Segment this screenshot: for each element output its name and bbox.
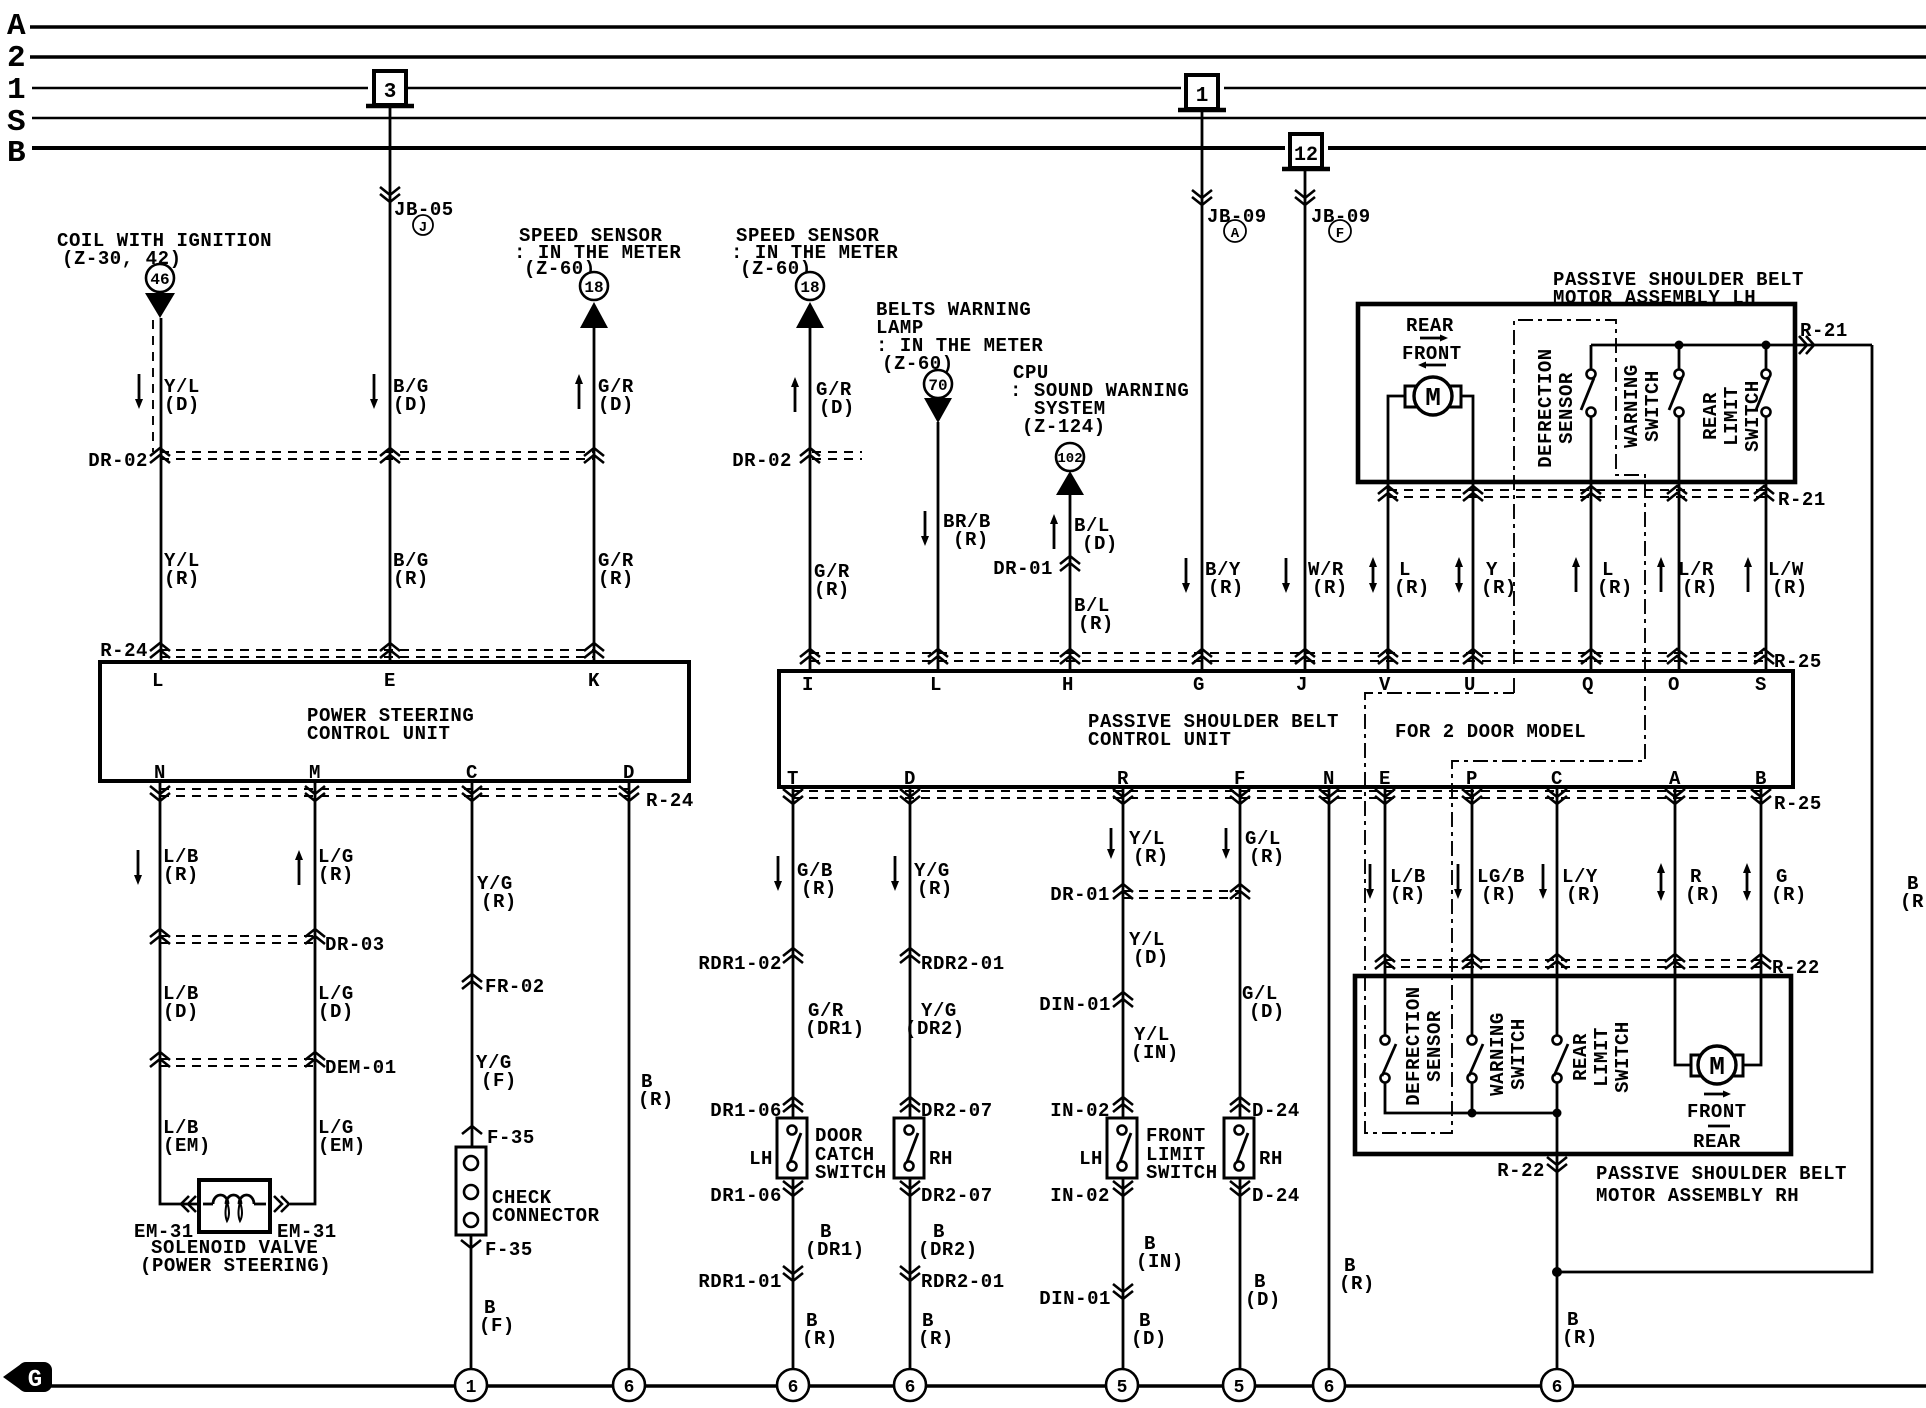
arrow down on wire N — [134, 850, 142, 885]
svg-text:A: A — [1669, 768, 1681, 790]
ground symbol G — [3, 1362, 52, 1394]
junction DR-02 crossing mark on wire E — [380, 448, 400, 463]
wire B PSBCU pin N to ground 6 — [1328, 787, 1331, 1369]
wire warning switch LH bottom to pin O — [1678, 417, 1681, 671]
svg-text:(D): (D) — [164, 394, 200, 416]
wire Y/L coil 46 to PSCU pin L — [160, 318, 163, 662]
switch FRONT LIMIT SWITCH RH — [1224, 1118, 1254, 1178]
switch REAR LIMIT SWITCH LH — [1756, 370, 1771, 417]
ground node 6 at wire D — [613, 1369, 645, 1401]
node A circle of JB-09 — [1224, 220, 1246, 242]
svg-text:(R): (R) — [1339, 1273, 1375, 1295]
svg-text:6: 6 — [905, 1378, 916, 1398]
junction D-24 upper crossing mark — [1230, 1097, 1250, 1112]
wire warning switch LH top to rail — [1678, 349, 1681, 369]
svg-text:B: B — [1755, 768, 1767, 790]
svg-text:P: P — [1466, 768, 1478, 790]
svg-text:RDR1-02: RDR1-02 — [698, 953, 782, 975]
arrow down on wire J — [1282, 558, 1290, 593]
svg-text:SWITCH: SWITCH — [1742, 380, 1764, 452]
junction D-24 lower crossing mark — [1230, 1181, 1250, 1196]
svg-text:WARNING: WARNING — [1621, 364, 1643, 448]
svg-text:H: H — [1062, 674, 1074, 696]
dash-dot 2-door-model boundary loop — [1365, 320, 1645, 1133]
wire defrection sensor LH bottom to pin Q — [1590, 417, 1593, 671]
svg-text:(DR1): (DR1) — [805, 1018, 865, 1040]
ground node 6 at wire D2 — [894, 1369, 926, 1401]
svg-text:DR1-06: DR1-06 — [710, 1185, 782, 1207]
wire from connector 1 down to PSBCU pin G — [1201, 111, 1204, 671]
svg-text:M: M — [309, 762, 321, 784]
junction EM-31 right connector marks — [274, 1196, 289, 1212]
svg-text:E: E — [384, 670, 396, 692]
junction DR-02 crossing mark on wire K — [584, 448, 604, 463]
junction EM-31 left connector marks — [181, 1196, 196, 1212]
wire Y/G PSCU pin C to check connector — [471, 781, 474, 1147]
svg-text:RDR2-01: RDR2-01 — [921, 953, 1005, 975]
svg-text:J: J — [1296, 674, 1308, 696]
junction JB-09 A crossing mark — [1192, 190, 1212, 205]
wire dashed DEM-01 run — [160, 1059, 315, 1066]
svg-text:(R): (R) — [1208, 577, 1244, 599]
arrowhead into wire from coil 46 — [145, 293, 175, 318]
arrow up on wire H — [1050, 514, 1058, 549]
svg-text:L: L — [930, 674, 942, 696]
svg-text:M: M — [1709, 1052, 1725, 1082]
switch REAR LIMIT SWITCH RH — [1553, 1036, 1569, 1083]
connector circle 18 (speed sensor I) — [796, 272, 824, 300]
wire from connector 3 down to PSCU pin E — [389, 107, 392, 662]
svg-text:CONNECTOR: CONNECTOR — [492, 1205, 600, 1227]
wire G/R sensor 18 to PSCU pin K — [593, 328, 596, 662]
junction F-35 upper connector mark — [462, 1126, 482, 1134]
junction DR-03 crossing mark on wire M — [305, 929, 325, 944]
junction DEM-01 crossing mark on wire M — [305, 1052, 325, 1067]
svg-text:1: 1 — [7, 73, 26, 108]
svg-text:RH: RH — [1259, 1148, 1283, 1170]
svg-text:(R): (R) — [638, 1089, 674, 1111]
svg-text:12: 12 — [1294, 144, 1318, 167]
svg-text:70: 70 — [928, 377, 947, 395]
svg-text:D: D — [904, 768, 916, 790]
svg-text:(D): (D) — [393, 394, 429, 416]
svg-text:(R): (R) — [801, 878, 837, 900]
wire stub pin A to RH motor left terminal — [1675, 976, 1691, 1065]
junction RDR2-01 lower crossing mark — [900, 1266, 920, 1281]
svg-text:(R): (R) — [1481, 577, 1517, 599]
arrow down on wire E2 — [1366, 864, 1374, 899]
label REAR with arrow (LH) — [1406, 315, 1454, 342]
svg-text:(DR2): (DR2) — [905, 1018, 965, 1040]
op-box PASSIVE SHOULDER BELT CONTROL UNIT — [779, 671, 1793, 787]
junction R-22 crossing marks — [1375, 954, 1395, 969]
op-box motor assembly LH — [1358, 304, 1795, 482]
wire rear limit LH bottom to pin S — [1765, 417, 1768, 671]
wire G/R sensor 18 to PSBCU pin I — [809, 328, 812, 671]
wire motor LH right terminal to pin U — [1461, 396, 1473, 671]
wire warning RH bottom to junction rail — [1471, 1083, 1474, 1113]
svg-text:6: 6 — [788, 1378, 799, 1398]
connector 12 on bus B — [1282, 134, 1330, 169]
wire motor LH left terminal to pin V — [1388, 396, 1405, 671]
svg-text:DR-01: DR-01 — [1050, 884, 1110, 906]
wire from connector 12 down to PSBCU pin J — [1304, 170, 1307, 671]
wire bus S — [32, 117, 1926, 119]
svg-text:LH: LH — [1079, 1148, 1103, 1170]
svg-text:E: E — [1379, 768, 1391, 790]
svg-text:J: J — [419, 220, 427, 236]
wire stub pin E inside RH box — [1384, 976, 1387, 1035]
op-box POWER STEERING CONTROL UNIT — [100, 662, 689, 781]
svg-text:FRONT: FRONT — [1402, 343, 1462, 365]
wire dashed R-21 run — [1388, 490, 1770, 497]
svg-text:RDR2-01: RDR2-01 — [921, 1271, 1005, 1293]
wire G/L PSBCU pin F to ground 5 — [1239, 787, 1242, 1369]
svg-text:S: S — [7, 105, 26, 140]
svg-text:R-21: R-21 — [1778, 489, 1826, 511]
wire B tall right run from R-21 rail down to RH ground node — [1557, 345, 1872, 1272]
svg-text:46: 46 — [150, 271, 169, 289]
switch DOOR CATCH SWITCH RH — [894, 1118, 924, 1178]
svg-text:(R): (R) — [164, 568, 200, 590]
svg-text:6: 6 — [1552, 1378, 1563, 1398]
svg-text:G: G — [1193, 674, 1205, 696]
svg-text:(R): (R) — [1685, 884, 1721, 906]
svg-text:LIMIT: LIMIT — [1721, 386, 1743, 446]
switch DEFRECTION SENSOR LH — [1581, 370, 1596, 417]
svg-text:(R): (R) — [1394, 577, 1430, 599]
junction DR2-07 lower crossing mark — [900, 1181, 920, 1196]
svg-text:M: M — [1425, 383, 1441, 413]
svg-text:18: 18 — [584, 279, 603, 297]
junction F-35 lower connector mark — [461, 1240, 481, 1248]
svg-text:A: A — [1231, 226, 1240, 242]
svg-text:(D): (D) — [1131, 1328, 1167, 1350]
junction DR1-06 lower crossing mark — [783, 1181, 803, 1196]
junction IN-02 lower crossing mark — [1113, 1181, 1133, 1196]
arrow up on wire O — [1657, 557, 1665, 592]
wire bus A — [30, 25, 1926, 28]
svg-text:(R): (R) — [393, 568, 429, 590]
wire dashed R-25 bottom run — [793, 791, 1765, 798]
svg-text:DEM-01: DEM-01 — [325, 1057, 397, 1079]
svg-text:18: 18 — [800, 279, 819, 297]
junction R-24 bottom crossing marks — [150, 786, 170, 801]
svg-text:(R): (R) — [1772, 577, 1808, 599]
motor M RH — [1691, 1046, 1743, 1084]
svg-text:F-35: F-35 — [485, 1239, 533, 1261]
svg-text:MOTOR ASSEMBLY RH: MOTOR ASSEMBLY RH — [1596, 1185, 1799, 1207]
svg-text:N: N — [154, 762, 166, 784]
wire stub pin C inside RH box — [1556, 976, 1559, 1035]
switch WARNING SWITCH LH — [1669, 370, 1684, 417]
svg-text:(EM): (EM) — [318, 1135, 366, 1157]
svg-text:(D): (D) — [1249, 1001, 1285, 1023]
svg-text:C: C — [1551, 768, 1563, 790]
switch FRONT LIMIT SWITCH LH — [1107, 1118, 1137, 1178]
arrow down on wire D2 — [891, 856, 899, 891]
arrow down on wire E — [370, 374, 378, 409]
svg-text:DR-01: DR-01 — [993, 558, 1053, 580]
junction DIN-01 upper crossing mark — [1113, 992, 1133, 1007]
svg-text:F: F — [1234, 768, 1246, 790]
component check connector — [456, 1147, 486, 1235]
dashed harness route beside coil wire — [152, 320, 154, 452]
svg-text:WARNING: WARNING — [1487, 1012, 1509, 1096]
junction R-24 crossing mark on wire E — [380, 643, 400, 658]
svg-text:(IN): (IN) — [1136, 1251, 1184, 1273]
label REAR with overline (RH) — [1693, 1126, 1741, 1153]
ground node 6 at wire N — [1313, 1369, 1345, 1401]
svg-text:(EM): (EM) — [163, 1135, 211, 1157]
svg-text:5: 5 — [1117, 1378, 1128, 1398]
svg-text:1: 1 — [1196, 85, 1209, 108]
svg-text:5: 5 — [1234, 1378, 1245, 1398]
wire defrection RH bottom to junction rail — [1385, 1083, 1557, 1113]
svg-text:2: 2 — [7, 41, 26, 76]
svg-text:(R): (R) — [318, 864, 354, 886]
svg-text:A: A — [7, 9, 26, 44]
arrow up on wire I — [791, 377, 799, 412]
junction RDR1-02 crossing mark — [783, 948, 803, 963]
svg-text:F-35: F-35 — [487, 1127, 535, 1149]
wire stub pin B to RH motor right terminal — [1743, 976, 1761, 1065]
svg-text:(R): (R) — [598, 568, 634, 590]
svg-text:R-24: R-24 — [646, 790, 694, 812]
svg-text:LIMIT: LIMIT — [1591, 1027, 1613, 1087]
svg-text:CONTROL UNIT: CONTROL UNIT — [1088, 729, 1231, 751]
wire G PSBCU pin B to RH motor — [1743, 787, 1761, 1065]
ground node 6 at RH assembly — [1541, 1369, 1573, 1401]
svg-text:DEFRECTION: DEFRECTION — [1535, 348, 1557, 468]
svg-text:IN-02: IN-02 — [1050, 1185, 1110, 1207]
wire B PSCU pin D to ground 6 — [628, 781, 631, 1369]
svg-text:SWITCH: SWITCH — [1508, 1018, 1530, 1090]
node F circle of JB-09 — [1329, 220, 1351, 242]
svg-text:DR-03: DR-03 — [325, 934, 385, 956]
junction DR-02 crossing mark on wire L — [150, 448, 170, 463]
junction FR-02 crossing mark on wire C — [462, 974, 482, 989]
svg-text:RH: RH — [929, 1148, 953, 1170]
svg-text:(F): (F) — [479, 1315, 515, 1337]
svg-text:6: 6 — [624, 1378, 635, 1398]
svg-text:S: S — [1755, 674, 1767, 696]
svg-text:(R): (R) — [1249, 846, 1285, 868]
connector 3 on bus 1 — [366, 71, 414, 106]
svg-text:D: D — [623, 762, 635, 784]
svg-text:D-24: D-24 — [1252, 1185, 1300, 1207]
arrowhead out of wire to CPU 102 — [1056, 471, 1084, 495]
arrow up on wire K — [575, 374, 583, 409]
connector 1 on bus 1 — [1178, 75, 1226, 110]
svg-text:(DR2): (DR2) — [918, 1239, 978, 1261]
svg-text:K: K — [588, 670, 600, 692]
svg-text:6: 6 — [1324, 1378, 1335, 1398]
svg-text:1: 1 — [466, 1378, 477, 1398]
op-box motor assembly RH — [1355, 976, 1791, 1154]
svg-text:(D): (D) — [819, 397, 855, 419]
wire L/B PSCU pin N to solenoid valve — [160, 781, 199, 1204]
svg-text:102: 102 — [1057, 451, 1082, 467]
wire dashed DR-02 stub — [812, 452, 862, 459]
arrow down on wire G — [1182, 558, 1190, 593]
arrow down on wire P — [1454, 864, 1462, 899]
svg-text:DR-02: DR-02 — [88, 450, 148, 472]
svg-text:(R): (R) — [1481, 884, 1517, 906]
wire dashed DR-01 run — [1123, 891, 1240, 898]
svg-text:SENSOR: SENSOR — [1556, 372, 1578, 444]
junction R-24 crossing mark on wire L — [150, 643, 170, 658]
junction JB-09 F crossing mark — [1295, 190, 1315, 205]
ground node 6 at wire T — [777, 1369, 809, 1401]
svg-text:(D): (D) — [1245, 1289, 1281, 1311]
wire bus 1 — [32, 87, 1926, 89]
svg-text:(R): (R) — [953, 529, 989, 551]
svg-text:I: I — [802, 674, 814, 696]
svg-text:(R): (R) — [1771, 884, 1807, 906]
svg-text:(D): (D) — [1133, 947, 1169, 969]
svg-text:B: B — [7, 136, 26, 171]
arrow down on wire F — [1222, 828, 1230, 859]
svg-text:PASSIVE SHOULDER BELT: PASSIVE SHOULDER BELT — [1596, 1163, 1847, 1185]
svg-text:DR-02: DR-02 — [732, 450, 792, 472]
svg-text:(R): (R) — [1133, 846, 1169, 868]
connector circle 70 (belts warning lamp) — [924, 370, 952, 398]
svg-text:DR2-07: DR2-07 — [921, 1100, 993, 1122]
wire BR/B lamp 70 to PSBCU pin L — [937, 422, 940, 671]
svg-text:R-25: R-25 — [1774, 793, 1822, 815]
svg-text:(Z-124): (Z-124) — [1022, 416, 1106, 438]
svg-text:(R): (R) — [1390, 884, 1426, 906]
svg-text:(R): (R) — [802, 1328, 838, 1350]
svg-text:(R): (R) — [163, 864, 199, 886]
svg-text:DIN-01: DIN-01 — [1039, 994, 1111, 1016]
arrow down on wire T — [774, 856, 782, 891]
junction R-25 bottom crossing marks — [783, 789, 803, 804]
svg-text:(POWER STEERING): (POWER STEERING) — [140, 1255, 331, 1277]
svg-text:(R): (R) — [918, 1328, 954, 1350]
wire rear limit RH bottom through junction dot down to ground 6 — [1556, 1083, 1559, 1369]
arrow up on wire M — [295, 850, 303, 885]
svg-text:(D): (D) — [1082, 533, 1118, 555]
junction DR-02 crossing mark on wire I — [800, 448, 820, 463]
junction IN-02 upper crossing mark — [1113, 1097, 1133, 1112]
svg-text:(R): (R) — [481, 891, 517, 913]
svg-text:R-22: R-22 — [1497, 1160, 1545, 1182]
arrow down on wire C2 — [1539, 864, 1547, 899]
connector circle 102 (CPU sound warning) — [1056, 443, 1084, 471]
wire L/G PSCU pin M to solenoid valve — [290, 781, 315, 1204]
switch DEFRECTION SENSOR RH — [1381, 1036, 1397, 1083]
wire dashed R-22 run — [1385, 960, 1765, 967]
connector circle 18 (speed sensor K) — [580, 272, 608, 300]
svg-text:DR2-07: DR2-07 — [921, 1185, 993, 1207]
svg-text:(IN): (IN) — [1131, 1042, 1179, 1064]
svg-text:DR1-06: DR1-06 — [710, 1100, 782, 1122]
svg-text:R-24: R-24 — [100, 640, 148, 662]
junction DR-03 crossing mark on wire N — [150, 929, 170, 944]
wire defrection sensor LH top to R-21 rail — [1590, 345, 1593, 369]
switch DOOR CATCH SWITCH LH — [777, 1118, 807, 1178]
component solenoid valve (power steering) — [199, 1180, 270, 1232]
junction dot warning RH on rail — [1468, 1109, 1477, 1118]
junction JB-05 crossing mark — [380, 187, 400, 202]
svg-text:(R): (R) — [1900, 891, 1926, 913]
svg-text:DEFRECTION: DEFRECTION — [1403, 986, 1425, 1106]
svg-text:DIN-01: DIN-01 — [1039, 1288, 1111, 1310]
svg-text:(R): (R) — [1078, 613, 1114, 635]
svg-text:D-24: D-24 — [1252, 1100, 1300, 1122]
svg-text:CONTROL UNIT: CONTROL UNIT — [307, 723, 450, 745]
svg-text:(DR1): (DR1) — [805, 1239, 865, 1261]
junction RDR2-01 upper crossing mark — [900, 948, 920, 963]
svg-text:(D): (D) — [318, 1001, 354, 1023]
svg-text:(D): (D) — [598, 394, 634, 416]
arrow up-down on wire B2 — [1743, 863, 1751, 901]
svg-text:IN-02: IN-02 — [1050, 1100, 1110, 1122]
node J circle of JB-05 — [413, 215, 433, 236]
ground bus wire — [50, 1384, 1926, 1387]
svg-text:FR-02: FR-02 — [485, 976, 545, 998]
svg-text:SWITCH: SWITCH — [815, 1162, 887, 1184]
svg-text:T: T — [787, 768, 799, 790]
wire dashed DR-02 run — [160, 452, 594, 459]
junction R-25 top crossing marks — [800, 649, 820, 664]
svg-text:REAR: REAR — [1700, 392, 1722, 440]
wire L/B PSBCU pin E to RH defrection sensor — [1384, 787, 1387, 1035]
svg-text:REAR: REAR — [1693, 1131, 1741, 1153]
junction DR-01 crossing marks on R and F — [1113, 884, 1133, 899]
svg-text:(R): (R) — [1682, 577, 1718, 599]
wire G/B PSBCU pin T to ground 6 — [792, 787, 795, 1369]
svg-text:C: C — [466, 762, 478, 784]
svg-text:Q: Q — [1582, 674, 1594, 696]
junction R-21 exit connector mark (pointing right) — [1799, 336, 1814, 354]
arrow up-down on wire V — [1369, 557, 1377, 593]
label FRONT with arrow (RH) — [1687, 1091, 1747, 1124]
wire rear limit LH top to rail — [1765, 349, 1768, 369]
wire R PSBCU pin A to RH motor — [1675, 787, 1691, 1065]
junction R-24 crossing mark on wire K — [584, 643, 604, 658]
junction DIN-01 lower crossing mark — [1113, 1284, 1133, 1299]
arrow down on wire L2 — [921, 511, 929, 546]
svg-text:(R): (R) — [1597, 577, 1633, 599]
ground node 1 — [455, 1369, 487, 1401]
wire dashed DR-03 run — [160, 936, 315, 943]
svg-text:SWITCH: SWITCH — [1612, 1021, 1634, 1093]
svg-text:SENSOR: SENSOR — [1424, 1010, 1446, 1082]
junction DEM-01 crossing mark on wire N — [150, 1052, 170, 1067]
arrow up-down on wire U — [1455, 557, 1463, 593]
junction dot rear limit switch LH on rail — [1762, 341, 1771, 350]
arrowhead out of wire to sensor 18 — [580, 302, 608, 328]
wire dashed R-25 top run — [810, 653, 1768, 661]
wire L/Y PSBCU pin C to RH rear limit switch — [1556, 787, 1559, 1035]
wire Y/G PSBCU pin D to ground 6 — [909, 787, 912, 1369]
svg-text:LH: LH — [749, 1148, 773, 1170]
junction DR2-07 upper crossing mark — [900, 1097, 920, 1112]
arrow down on wire R — [1107, 828, 1115, 859]
svg-text:FRONT: FRONT — [1687, 1101, 1747, 1123]
arrowhead out of wire to sensor 18 — [796, 302, 824, 328]
ground node 5 at wire F — [1223, 1369, 1255, 1401]
svg-text:(R): (R) — [1562, 1327, 1598, 1349]
svg-text:(R): (R) — [917, 878, 953, 900]
svg-text:L: L — [152, 670, 164, 692]
svg-text:R: R — [1117, 768, 1129, 790]
wire dashed R-24 top run — [160, 650, 594, 657]
wire B check connector to ground 1 — [470, 1235, 473, 1369]
